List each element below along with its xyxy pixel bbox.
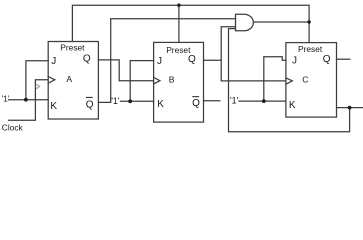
junction constant1 C [262,99,266,103]
flip-flop U2 box B [154,42,204,122]
svg-text:Q: Q [192,98,200,109]
svg-text:K: K [50,101,57,112]
wire constant 1 to A K [9,99,49,101]
svg-text:Preset: Preset [60,43,85,53]
flip-flop U3 box C [286,43,337,118]
wire C Q stub [337,58,350,60]
svg-text:Clock: Clock [2,122,24,132]
wire preset tap B [178,5,180,42]
gray direction arrow on clock wire [36,84,40,89]
svg-text:Q: Q [323,54,331,65]
wire A J riser [26,61,48,100]
svg-text:K: K [289,100,296,111]
clock triangle A [48,77,55,84]
svg-text:J: J [51,56,56,67]
svg-text:A: A [66,74,72,84]
wire C Qbar feedback to AND input 3 [229,29,350,132]
wire constant 1 to B K [121,100,154,102]
wire B Q branch to C clock [221,60,286,81]
svg-text:'1': '1' [111,96,120,106]
svg-text:Preset: Preset [298,44,323,54]
svg-text:J: J [292,56,297,67]
junction constant1 B [128,99,132,103]
svg-text:Q: Q [83,54,91,65]
flip-flop U1 box A [48,42,98,120]
svg-text:Q: Q [86,100,94,111]
clock triangle B [154,77,160,84]
wire A Qbar to AND input 1 [98,19,235,103]
wire A Q to B clock [98,60,153,81]
wire C J riser with jog [264,57,286,101]
wire B J riser [130,61,153,102]
wire B Qbar stub [204,100,220,102]
svg-text:'1': '1' [230,95,239,105]
clock triangle C [286,78,292,84]
svg-text:B: B [169,75,175,85]
AND gate U4 [236,14,254,31]
junction preset tap B [177,3,180,6]
wire preset rail top [72,5,309,42]
svg-text:C: C [302,75,308,85]
junction C Qbar [348,106,352,110]
wire constant 1 to C K [239,100,286,102]
svg-text:K: K [157,99,164,110]
svg-text:Q: Q [188,54,196,65]
svg-text:'1': '1' [2,93,10,103]
wire AND output to preset node [253,21,309,23]
svg-text:J: J [157,56,162,67]
junction constant1 A [24,98,28,102]
wire clock input to A [9,80,49,120]
wire C Qbar output [337,107,363,109]
wire B Q to AND input 2 [204,27,236,61]
junction AND output preset node [307,20,310,23]
